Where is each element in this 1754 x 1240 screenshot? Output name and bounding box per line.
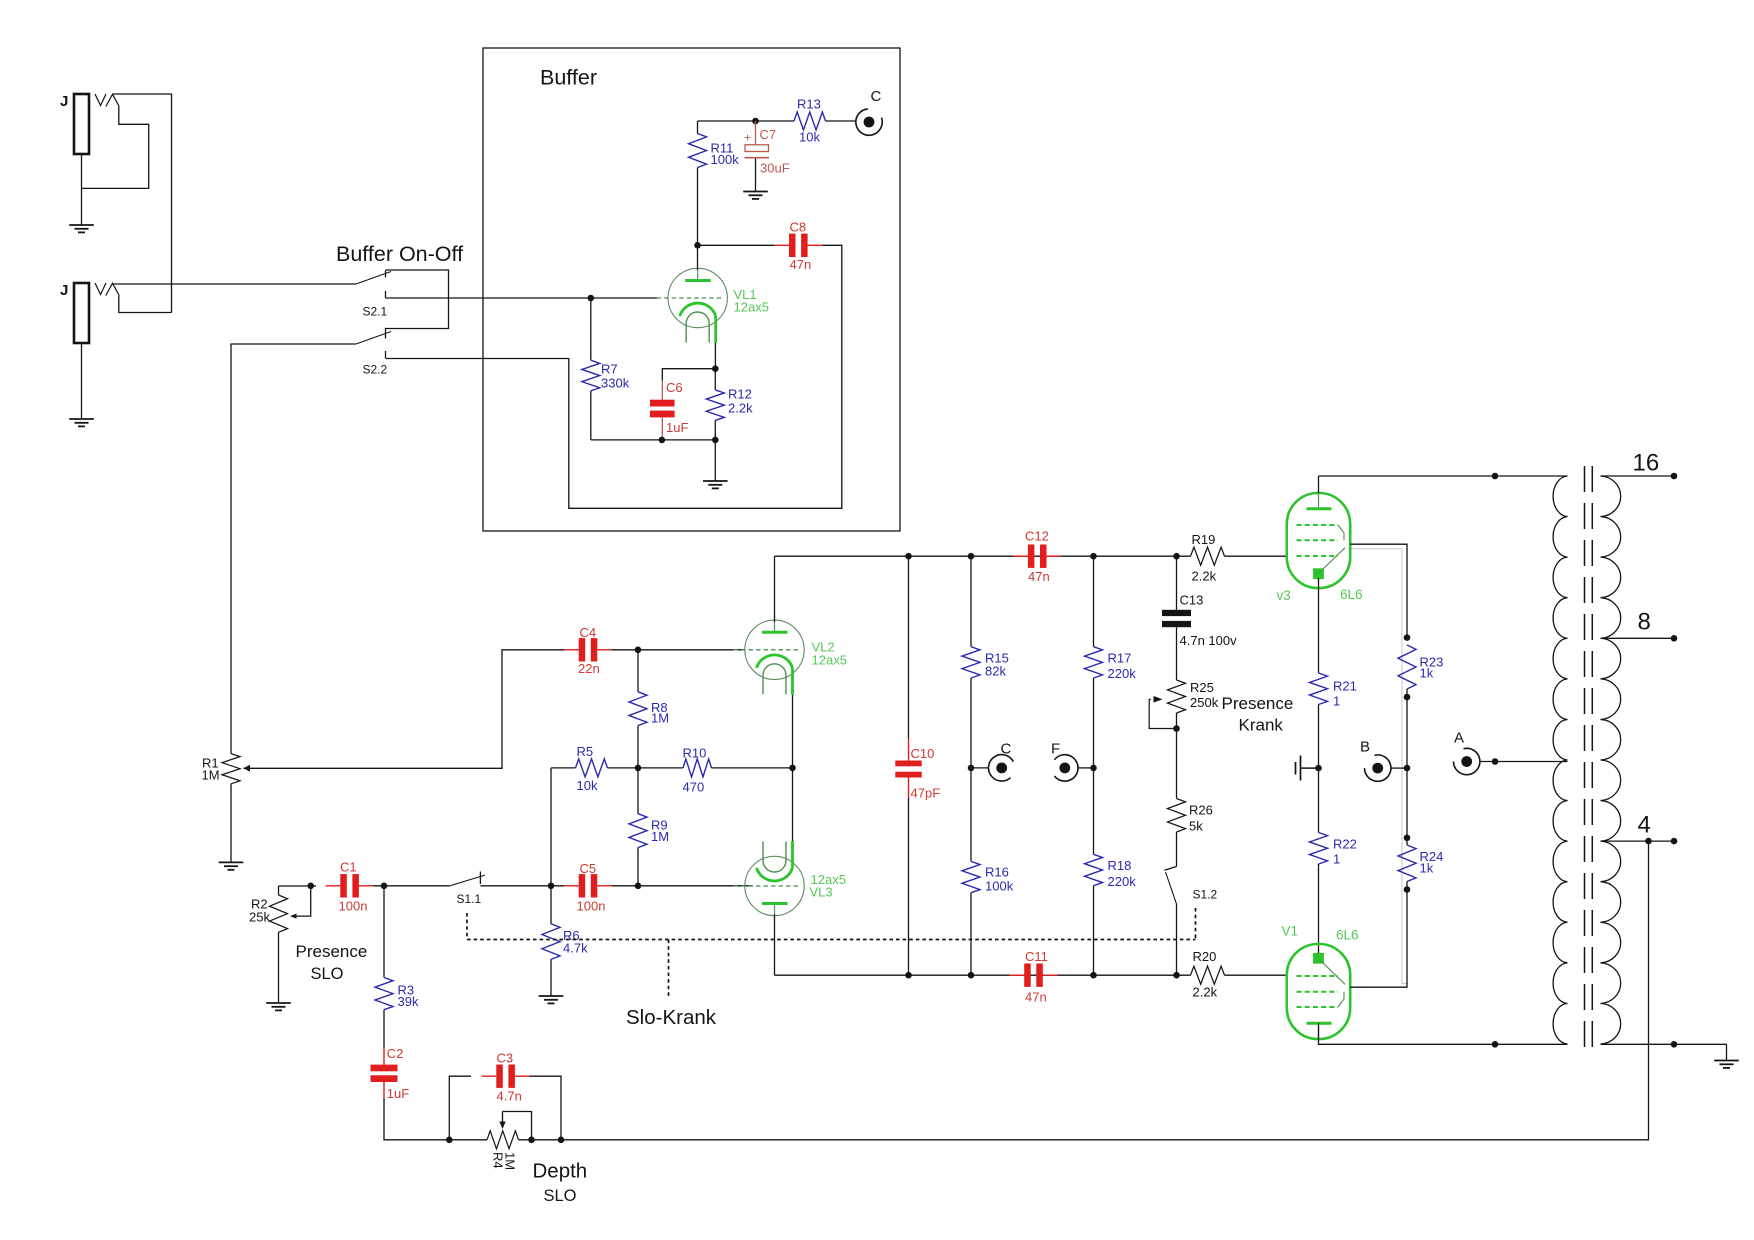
node F: [1051, 741, 1078, 782]
wire J2 tip to S2.1 pole: [113, 283, 357, 285]
node junction VL1 cathode: [712, 365, 719, 372]
ground at J1: [69, 224, 94, 226]
switch S2.1: [356, 271, 391, 319]
svg-text:J: J: [60, 282, 68, 299]
resistor R11 100k: [689, 121, 740, 245]
secondary tap 4 ohm: [1601, 812, 1678, 845]
wire R11 bottom to C8 row: [694, 242, 701, 249]
beam tetrode v3 6L6: [1277, 493, 1363, 603]
svg-text:4: 4: [1638, 812, 1651, 839]
svg-text:+: +: [744, 131, 751, 145]
capacitor C1 100n: [326, 860, 374, 914]
node junction VL1 grid / R7: [588, 295, 595, 302]
resistor R5 10k: [551, 744, 638, 793]
capacitor C11 47n: [1010, 949, 1058, 1005]
wire to node C: [971, 767, 989, 769]
svg-text:16: 16: [1633, 450, 1660, 477]
wire S2.2 throw into buffer: [386, 245, 842, 508]
triode VL2 12ax5: [734, 620, 847, 695]
wire R2 to C1: [279, 885, 317, 887]
svg-text:Presence: Presence: [296, 942, 368, 961]
svg-text:100n: 100n: [577, 899, 606, 914]
secondary bottom to ground: [1601, 1041, 1727, 1061]
node junction VL2 grid: [635, 647, 642, 654]
node junction C10 top: [905, 553, 912, 560]
resistor R16 100k: [962, 768, 1014, 975]
svg-text:C: C: [1001, 741, 1012, 758]
wire C4 to VL2 grid: [612, 649, 745, 651]
wire v3 cathode to R21: [1318, 578, 1320, 673]
capacitor C4 22n: [564, 625, 612, 676]
svg-text:22n: 22n: [578, 661, 600, 676]
triode VL3 12ax5: [734, 841, 846, 916]
svg-text:SLO: SLO: [544, 1187, 577, 1205]
node junction VL3 grid / R9: [635, 883, 642, 890]
resistor R20 2.2k: [1191, 949, 1288, 1000]
resistor R10 470: [638, 746, 793, 795]
svg-text:S1.1: S1.1: [457, 892, 482, 906]
ghost line artifact: [1348, 549, 1408, 984]
svg-text:8: 8: [1638, 609, 1651, 636]
svg-text:Krank: Krank: [1239, 716, 1284, 735]
svg-text:47n: 47n: [1028, 569, 1050, 584]
svg-text:R16: R16: [985, 865, 1009, 880]
node junction R2 wiper tap: [307, 883, 314, 890]
node junction C3 right: [558, 1137, 565, 1144]
svg-text:100n: 100n: [339, 899, 368, 914]
svg-text:C5: C5: [580, 861, 597, 876]
wire VL3 plate down: [774, 914, 776, 975]
svg-text:100k: 100k: [985, 879, 1014, 894]
resistor R7 330k: [582, 298, 630, 440]
wire C2 to depth row: [384, 1098, 449, 1140]
wire VL2 plate to HT bus: [774, 556, 776, 622]
wire S2.1 throw to VL1 grid: [386, 297, 658, 299]
svg-text:C: C: [871, 88, 882, 105]
resistor R18 220k: [1085, 768, 1137, 975]
svg-text:10k: 10k: [577, 778, 598, 793]
svg-text:R20: R20: [1193, 949, 1217, 964]
capacitor C13 4.7n 100v: [1162, 556, 1237, 680]
resistor R24 1k: [1398, 768, 1443, 889]
ground (rotated) at R21/R22: [1296, 756, 1319, 781]
ground at R1: [219, 861, 244, 863]
wire C7 to ground: [755, 159, 757, 192]
svg-text:C10: C10: [911, 746, 935, 761]
ground at R6: [539, 995, 564, 997]
wire R12 to ground: [714, 440, 716, 481]
wire C1 to S1.1: [374, 885, 450, 887]
resistor R3 39k: [375, 886, 419, 1048]
node C: [989, 741, 1014, 782]
wire V1 screen to R24 column: [1350, 890, 1407, 988]
capacitor C10 47pF: [895, 556, 940, 975]
svg-text:Slo-Krank: Slo-Krank: [626, 1006, 717, 1029]
svg-text:25k: 25k: [249, 910, 270, 925]
node junction cathode ground: [1315, 765, 1322, 772]
HT bus (upper): [775, 555, 1191, 557]
node A: [1454, 730, 1568, 775]
svg-text:330k: 330k: [601, 376, 630, 391]
svg-text:1k: 1k: [1420, 861, 1434, 876]
svg-text:R25: R25: [1190, 680, 1214, 695]
resistor R26 5k: [1168, 799, 1213, 867]
resistor R21 1: [1310, 673, 1357, 768]
node junction R6 top: [548, 883, 555, 890]
svg-text:470: 470: [683, 780, 705, 795]
svg-text:1: 1: [1333, 852, 1340, 867]
svg-text:220k: 220k: [1108, 874, 1137, 889]
wire J2 sleeve down: [81, 343, 83, 419]
cathode bus (lower): [775, 974, 1191, 976]
wire S1.1 to C5: [480, 885, 565, 887]
node junction on plate bus top: [1492, 473, 1499, 480]
potentiometer R4 1M Depth: [449, 1112, 561, 1171]
svg-text:250k: 250k: [1190, 695, 1219, 710]
wire cathode network bottom: [591, 439, 716, 441]
ground at C7: [743, 191, 768, 193]
svg-text:R21: R21: [1333, 679, 1357, 694]
node junction C13 top: [1173, 553, 1180, 560]
svg-text:1uF: 1uF: [666, 420, 688, 435]
node junction R23 bottom: [1404, 694, 1411, 701]
wire C5 to VL3 grid: [612, 885, 753, 887]
node junction C3 left: [446, 1137, 453, 1144]
svg-text:4.7k: 4.7k: [563, 941, 588, 956]
node junction C1/R3: [381, 883, 388, 890]
svg-text:S1.2: S1.2: [1193, 888, 1218, 902]
resistor R22 1: [1310, 768, 1357, 954]
input jack J1 (top): [60, 93, 119, 154]
svg-text:2.2k: 2.2k: [1193, 985, 1218, 1000]
output transformer T1 secondary: [1601, 476, 1621, 1044]
capacitor C8 47n: [698, 220, 823, 273]
svg-text:v3: v3: [1277, 588, 1291, 603]
svg-text:1M: 1M: [651, 829, 669, 844]
svg-text:100k: 100k: [711, 152, 740, 167]
node junction on plate bus bottom: [1492, 1041, 1499, 1048]
svg-text:Depth: Depth: [533, 1160, 588, 1183]
svg-text:1M: 1M: [202, 768, 220, 783]
wire J1 ring to sleeve: [82, 107, 149, 189]
wire V1 plate to transformer bus: [1319, 1023, 1568, 1044]
wire S2.1 contact-A loop to S2.2 contact: [386, 270, 449, 339]
wire VL1 plate: [697, 245, 699, 270]
svg-text:R18: R18: [1108, 858, 1132, 873]
svg-text:4.7n 100v: 4.7n 100v: [1180, 633, 1238, 648]
resistor R6 4.7k: [542, 886, 588, 996]
svg-text:Buffer: Buffer: [540, 66, 597, 90]
dashed drop to Slo-Krank label: [668, 940, 670, 998]
wire J2 ring: [119, 296, 172, 313]
wire v3 plate to transformer bus: [1318, 476, 1320, 493]
svg-text:1: 1: [1333, 694, 1340, 709]
wire R11 top to R13: [698, 120, 756, 122]
svg-text:Buffer On-Off: Buffer On-Off: [336, 242, 463, 266]
connector C (buffer output): [856, 88, 882, 135]
svg-text:R10: R10: [683, 746, 707, 761]
potentiometer R2 25k Presence SLO: [249, 886, 288, 1003]
mechanical link S1.1-S1.2 (dashed): [466, 913, 468, 940]
node junction at A: [1492, 758, 1499, 765]
svg-text:R5: R5: [577, 744, 594, 759]
svg-text:A: A: [1454, 730, 1464, 747]
input jack J2 (bottom): [60, 282, 119, 343]
svg-text:R12: R12: [728, 387, 752, 402]
svg-text:C12: C12: [1025, 529, 1049, 544]
svg-text:12ax5: 12ax5: [734, 300, 769, 315]
resistor R13 10k: [756, 97, 856, 145]
svg-text:C8: C8: [790, 220, 807, 235]
wire J1 sleeve down: [81, 154, 83, 225]
svg-text:82k: 82k: [985, 664, 1006, 679]
svg-text:C13: C13: [1180, 593, 1204, 608]
node junction R15 top: [968, 553, 975, 560]
svg-text:R22: R22: [1333, 837, 1357, 852]
svg-text:39k: 39k: [398, 994, 419, 1009]
svg-text:C4: C4: [580, 625, 597, 640]
capacitor C6 1uF: [650, 369, 715, 440]
svg-text:R26: R26: [1189, 803, 1213, 818]
svg-text:F: F: [1051, 741, 1060, 758]
resistor R8 1M: [629, 650, 669, 768]
secondary tap 8 ohm: [1601, 609, 1678, 642]
node junction S1.2 bottom: [1173, 972, 1180, 979]
node junction R24 top: [1404, 835, 1411, 842]
svg-text:Presence: Presence: [1222, 694, 1294, 713]
potentiometer R1 1M: [202, 754, 251, 863]
output transformer T1 primary: [1553, 476, 1567, 1044]
capacitor C2 1uF: [371, 1046, 410, 1101]
switch S2.2: [356, 332, 391, 377]
svg-text:5k: 5k: [1189, 819, 1203, 834]
beam tetrode V1 6L6: [1282, 924, 1359, 1040]
svg-text:V1: V1: [1282, 924, 1299, 939]
svg-text:C2: C2: [387, 1046, 404, 1061]
svg-text:2.2k: 2.2k: [1192, 569, 1217, 584]
svg-text:C6: C6: [666, 380, 683, 395]
feedback wire 4-ohm tap to Depth pot: [561, 841, 1649, 1140]
wire VL2 cathode: [792, 695, 794, 768]
capacitor C12 47n: [1013, 529, 1061, 585]
svg-text:C1: C1: [340, 860, 357, 875]
node junction R12 bottom: [712, 437, 719, 444]
svg-text:12ax5: 12ax5: [812, 653, 847, 668]
switch S1.1: [449, 872, 484, 907]
node junction R17 top: [1090, 553, 1097, 560]
switch S1.2: [1165, 867, 1218, 976]
node junction C10 bottom: [905, 972, 912, 979]
resistor R23 1k: [1398, 645, 1443, 768]
node junction R23 top: [1404, 634, 1411, 641]
node junction R13/C7: [752, 118, 759, 125]
node junction VL2/VL3 cathodes: [789, 765, 796, 772]
resistor R17 220k: [1085, 556, 1137, 768]
svg-text:B: B: [1360, 739, 1370, 756]
node junction R24 bottom: [1404, 886, 1411, 893]
node B: [1360, 739, 1407, 782]
wire VL1 cathode: [714, 343, 716, 369]
svg-text:220k: 220k: [1108, 666, 1137, 681]
svg-text:SLO: SLO: [311, 965, 344, 983]
node junction R18 bottom: [1090, 972, 1097, 979]
svg-text:J: J: [60, 93, 68, 110]
svg-text:30uF: 30uF: [760, 161, 790, 176]
svg-text:C3: C3: [497, 1051, 514, 1066]
svg-text:R13: R13: [797, 97, 821, 112]
node junction at C: [968, 765, 975, 772]
svg-text:S2.1: S2.1: [363, 305, 388, 319]
wire R2 wiper: [296, 886, 311, 916]
wire v3 screen to R23 column: [1350, 544, 1407, 637]
svg-text:47pF: 47pF: [911, 786, 941, 801]
resistor R15 82k: [962, 556, 1009, 768]
capacitor C5 100n: [564, 861, 612, 914]
buffer box: [483, 48, 900, 531]
svg-text:VL3: VL3: [810, 885, 833, 900]
capacitor C7 30uF electrolytic: [744, 121, 790, 176]
svg-text:1M: 1M: [651, 711, 669, 726]
svg-text:6L6: 6L6: [1336, 928, 1359, 943]
resistor R12 2.2k: [706, 369, 753, 440]
wire R5 left to signal row: [550, 768, 552, 886]
svg-text:C7: C7: [760, 127, 777, 142]
svg-text:R19: R19: [1192, 532, 1216, 547]
node junction at B: [1404, 765, 1411, 772]
resistor R9 1M: [629, 768, 669, 886]
ground at J2: [69, 418, 94, 420]
svg-text:R17: R17: [1108, 651, 1132, 666]
wire node F to R17 column: [1078, 767, 1094, 769]
node junction R8/R5/R9/R10: [635, 765, 642, 772]
wire R1 wiper to C4: [244, 650, 566, 769]
ground at R2: [266, 1002, 291, 1004]
HT bus to output transformer primary (top): [1319, 475, 1568, 477]
node junction R25 wiper: [1173, 725, 1180, 732]
ground at transformer secondary: [1714, 1060, 1739, 1062]
capacitor C3 4.7n: [449, 1051, 561, 1140]
wire J1 tip to J2 ring: [113, 94, 172, 313]
svg-text:4.7n: 4.7n: [497, 1089, 522, 1104]
svg-text:1uF: 1uF: [387, 1086, 409, 1101]
svg-text:1M: 1M: [503, 1152, 518, 1170]
wire S2.2 pole to R1: [231, 344, 356, 754]
node junction at F: [1090, 765, 1097, 772]
svg-text:47n: 47n: [1025, 990, 1047, 1005]
resistor R19 2.2k: [1191, 532, 1288, 584]
triode VL1 12ax5: [657, 268, 769, 343]
secondary tap 16 ohm: [1601, 450, 1678, 480]
svg-text:10k: 10k: [799, 130, 820, 145]
potentiometer R25 250k Presence Krank: [1149, 680, 1218, 799]
node junction R4 wiper: [528, 1137, 535, 1144]
svg-text:1k: 1k: [1420, 666, 1434, 681]
svg-text:R7: R7: [601, 362, 618, 377]
svg-text:6L6: 6L6: [1340, 587, 1363, 602]
svg-text:S2.2: S2.2: [363, 363, 388, 377]
ground at R12: [703, 480, 728, 482]
wire VL3 cathode up: [792, 768, 794, 841]
svg-text:47n: 47n: [790, 257, 812, 272]
svg-text:2.2k: 2.2k: [728, 401, 753, 416]
node junction R16 bottom: [968, 972, 975, 979]
svg-text:C11: C11: [1025, 949, 1048, 964]
node junction C6 bottom: [659, 437, 666, 444]
transformer core (dashed): [1584, 466, 1586, 1053]
